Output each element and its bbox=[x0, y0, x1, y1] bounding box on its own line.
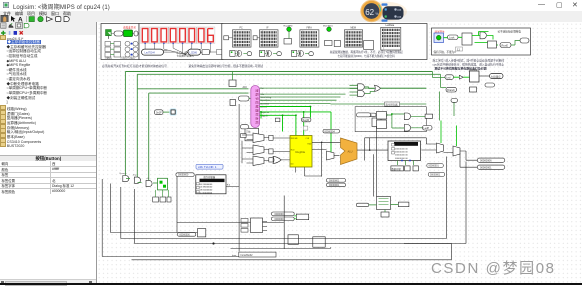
svg-text:0c 00000000: 0c 00000000 bbox=[199, 192, 212, 194]
attribute panel bbox=[0, 155, 97, 161]
svg-text:00000001: 00000001 bbox=[329, 185, 340, 187]
probe rects left of regfile bbox=[268, 135, 272, 162]
wires green column left bbox=[110, 43, 114, 54]
register grid IF bbox=[259, 27, 278, 46]
probe oval 00000004 top bbox=[360, 113, 376, 117]
xor gate cluster 2 bbox=[259, 50, 281, 56]
svg-text:七段锁存: 七段锁存 bbox=[490, 74, 501, 78]
clk oval bbox=[451, 98, 458, 102]
svg-text:ALUCtl: ALUCtl bbox=[260, 105, 267, 108]
mux column 3 bbox=[253, 156, 264, 166]
probe oval bbox=[114, 31, 123, 36]
splitter pennant bbox=[105, 29, 134, 38]
svg-text:KB: KB bbox=[397, 15, 401, 19]
imm label box wide bbox=[232, 252, 276, 257]
svg-text:必须先将开关打到0(红灯亮起)才能切换时钟启动信号: 必须先将开关打到0(红灯亮起)才能切换时钟启动信号 bbox=[102, 64, 167, 68]
probe before IF grid bbox=[253, 35, 259, 39]
svg-text:00000000: 00000000 bbox=[178, 174, 189, 176]
wire: green loop 3 bbox=[148, 93, 248, 180]
svg-text:指令寄存器: 指令寄存器 bbox=[385, 102, 398, 106]
svg-text:RdD: RdD bbox=[307, 143, 311, 145]
mux column 2 bbox=[253, 145, 264, 155]
data memory box bbox=[388, 141, 421, 161]
menu bar bbox=[0, 11, 582, 16]
probe box E bbox=[425, 114, 433, 118]
probe oval small bbox=[134, 31, 138, 36]
svg-text:08 00000000: 08 00000000 bbox=[199, 189, 213, 191]
svg-text:x4b: Tx1,NK: 1: x4b: Tx1,NK: 1 bbox=[198, 165, 217, 169]
ALU control cluster bbox=[241, 218, 267, 233]
mux right 2 bbox=[453, 146, 460, 156]
register grid MEM bbox=[344, 27, 362, 46]
probe oval LedPC bbox=[422, 125, 432, 130]
probe ovals 00000001 pair mid bbox=[326, 178, 345, 182]
buffer bbox=[459, 75, 463, 79]
svg-text:请按此开关: 请按此开关 bbox=[123, 25, 136, 29]
indicator columns right bbox=[125, 41, 138, 57]
svg-text:00000001: 00000001 bbox=[480, 165, 492, 169]
svg-text:RegW: RegW bbox=[302, 119, 309, 122]
svg-text:00 24000000: 00 24000000 bbox=[199, 183, 213, 185]
probe oval bbox=[447, 35, 458, 40]
component pin box bbox=[230, 99, 236, 105]
junction dots bbox=[260, 105, 311, 116]
wires mux outputs to regfile bbox=[264, 137, 290, 160]
RegWrite probe oval bbox=[301, 117, 311, 121]
register column left bbox=[105, 41, 121, 57]
svg-text:00000004: 00000004 bbox=[324, 131, 335, 133]
const 11 box bbox=[455, 47, 462, 51]
tunnel label bbox=[330, 102, 426, 106]
probe oval Led bbox=[445, 74, 454, 79]
wire: green loop 2 bbox=[137, 74, 440, 177]
and gate IRQ 2 bbox=[404, 124, 410, 131]
sequencer wires bbox=[242, 135, 253, 163]
svg-text:测试不可换挡预留互换电路状态灯及对调: 测试不可换挡预留互换电路状态灯及对调 bbox=[434, 65, 486, 70]
svg-text:KB: KB bbox=[397, 8, 401, 12]
long vertical wires left bbox=[102, 179, 134, 257]
svg-text:ALU: ALU bbox=[347, 149, 352, 153]
register box 2 bbox=[376, 120, 386, 129]
nand gate bbox=[480, 32, 486, 39]
module box C: pipeline state displays bbox=[221, 23, 426, 59]
svg-text:计数器: 计数器 bbox=[104, 55, 112, 59]
green verticals into muxes bbox=[441, 120, 457, 146]
svg-text:保持节拍，不能为0: 保持节拍，不能为0 bbox=[433, 50, 456, 54]
counter oval left bbox=[240, 124, 248, 128]
counter oval interrupt bbox=[356, 112, 370, 116]
LED Reg38Hz bbox=[283, 25, 292, 44]
wire: outer green loop top bbox=[125, 71, 432, 175]
selected pin (cyan halo) bbox=[169, 108, 177, 116]
svg-text:62: 62 bbox=[365, 8, 374, 17]
wires memory to mux bbox=[421, 144, 477, 167]
const boxes under splitter bbox=[152, 197, 170, 202]
long bottom wires bbox=[102, 126, 466, 259]
funct box bbox=[296, 214, 308, 220]
main toolbar bbox=[0, 16, 582, 22]
pin box left bbox=[240, 133, 246, 137]
yellow regfile bottom stubs bbox=[295, 167, 321, 176]
RegFile (yellow) bbox=[290, 135, 312, 167]
module box A: clock control panel bbox=[101, 23, 139, 59]
svg-text:Led: Led bbox=[446, 76, 451, 79]
probe oval 00000000 bbox=[175, 172, 193, 176]
svg-text:Imm: Imm bbox=[232, 254, 236, 256]
wire ALU out bbox=[357, 137, 426, 160]
Branch probe oval bbox=[446, 87, 457, 92]
gate buffers bottom-left 3 bbox=[146, 178, 152, 187]
svg-text:Rst: Rst bbox=[260, 87, 264, 90]
svg-text:LedData: LedData bbox=[385, 24, 394, 27]
svg-text:RegFile: RegFile bbox=[295, 150, 305, 154]
blue input square with LED bbox=[434, 33, 444, 43]
register grid FIRA bbox=[299, 26, 318, 46]
left pane mini toolbars bbox=[0, 22, 97, 37]
xor gate cluster 1 bbox=[229, 50, 251, 56]
label 七段数码管输入 bbox=[176, 53, 194, 57]
svg-text:0x1F: 0x1F bbox=[156, 110, 162, 114]
sequencer box bbox=[245, 128, 259, 141]
svg-text:04 38000000: 04 38000000 bbox=[199, 186, 213, 188]
probe oval 00000004 bbox=[323, 129, 340, 133]
svg-text:Din: Din bbox=[290, 163, 293, 165]
svg-text:11: 11 bbox=[457, 47, 460, 51]
wires gates mid top bbox=[349, 85, 426, 95]
mux right 1 bbox=[436, 143, 443, 153]
svg-text:MEM: MEM bbox=[350, 27, 355, 29]
register grid LedData bbox=[380, 24, 400, 50]
probe before PC grid bbox=[223, 35, 232, 39]
clock divider cluster bbox=[356, 196, 409, 217]
probe oval LedTCH4 bbox=[141, 49, 163, 55]
svg-text:00000001: 00000001 bbox=[430, 174, 441, 176]
module box D: debug switch panel bbox=[431, 28, 530, 55]
LED MemWrite bbox=[323, 24, 334, 45]
or gate small bbox=[273, 156, 281, 163]
probe oval 0x1F bbox=[154, 109, 163, 114]
blue pin dots bbox=[130, 42, 132, 55]
counter oval bbox=[238, 96, 251, 101]
svg-text:控制信号输出: 控制信号输出 bbox=[120, 55, 135, 59]
svg-text:clk: clk bbox=[146, 178, 150, 180]
wire: ctrl outputs bright green bus bbox=[259, 106, 330, 154]
sign extend box bbox=[372, 118, 381, 127]
svg-text:Jmp: Jmp bbox=[132, 174, 137, 176]
tunnel label blue bbox=[196, 164, 223, 169]
LedReg cluster: wire green bbox=[432, 71, 454, 120]
splitter green component bbox=[126, 178, 168, 190]
instruction memory bbox=[195, 174, 225, 194]
svg-text:PC: PC bbox=[239, 27, 243, 29]
svg-text:RegDst: RegDst bbox=[260, 114, 267, 117]
probe ovals below mux bbox=[426, 163, 443, 167]
svg-text:LCD86: LCD86 bbox=[189, 51, 197, 54]
small comp box bbox=[469, 87, 476, 92]
latch output oval bbox=[489, 73, 503, 78]
memory pins below bbox=[397, 160, 413, 165]
svg-text:RunE: RunE bbox=[501, 43, 508, 47]
box bottom 2 bbox=[312, 236, 324, 246]
svg-text:00000006: 00000006 bbox=[480, 158, 492, 162]
and gates mid top bbox=[357, 83, 380, 96]
LedReg register bbox=[469, 69, 479, 82]
junction bbox=[320, 141, 322, 143]
wire to selected pin bbox=[163, 111, 171, 113]
probe oval bbox=[500, 42, 511, 47]
stepped display box bbox=[363, 40, 373, 49]
probe rect small bbox=[275, 118, 280, 122]
svg-text:七段不能提前为0000，七段不能为随机打7/组合码: 七段不能提前为0000，七段不能为随机打7/组合码 bbox=[337, 53, 395, 57]
probe rect pair bbox=[202, 49, 210, 54]
svg-text:RW WE: RW WE bbox=[290, 138, 297, 140]
svg-text:LedP: LedP bbox=[423, 127, 429, 130]
svg-text:先装载测试数据，再循环执行1条，不行，必须让7段数码管跑起: 先装载测试数据，再循环执行1条，不行，必须让7段数码管跑起 bbox=[329, 49, 402, 53]
wire regfile out bbox=[312, 142, 343, 176]
wire fan from displays bbox=[145, 44, 210, 55]
svg-text:00000001: 00000001 bbox=[428, 165, 439, 167]
schematic canvas bbox=[97, 22, 582, 284]
svg-text:A16: A16 bbox=[242, 86, 247, 89]
svg-text:RegWrite: RegWrite bbox=[260, 110, 269, 113]
result ovals right bbox=[477, 158, 505, 162]
svg-text:00000000 00: 00000000 00 bbox=[395, 148, 409, 150]
mux column 1 bbox=[253, 133, 264, 143]
wire: ctrl outputs green bbox=[259, 88, 426, 103]
svg-text:Branch: Branch bbox=[447, 89, 455, 92]
wires bright green bbox=[443, 31, 498, 45]
button (green) bbox=[123, 30, 132, 37]
register box interrupt bbox=[376, 111, 386, 119]
gate buffers bottom-left 1 bbox=[119, 172, 128, 182]
svg-text:微程序控制器状态机: 微程序控制器状态机 bbox=[255, 89, 260, 125]
svg-text:00000001: 00000001 bbox=[329, 180, 340, 182]
control unit output labels bbox=[260, 87, 271, 117]
ALU (orange) bbox=[340, 138, 357, 165]
const box E bbox=[303, 126, 308, 130]
probe oval small bbox=[378, 113, 387, 117]
wires IRQ bbox=[386, 114, 425, 128]
wire vertical from imem oval bbox=[177, 176, 284, 232]
module box B: seven segment display bank bbox=[139, 23, 223, 59]
flipflop small bbox=[487, 41, 496, 48]
gate buffers bottom-left 2 bbox=[132, 174, 140, 183]
register box bbox=[462, 33, 472, 45]
seven-seg digits 00000006 bbox=[140, 27, 149, 44]
mux before ALU bbox=[326, 151, 334, 160]
svg-text:00000000: 00000000 bbox=[179, 234, 190, 236]
svg-text:00000001: 00000001 bbox=[274, 213, 285, 215]
MemR small box bbox=[334, 40, 340, 46]
svg-text:Stlu: Stlu bbox=[260, 93, 264, 96]
svg-text:RsD: RsD bbox=[290, 149, 294, 151]
memory label boxes bbox=[390, 165, 418, 170]
svg-text:00000001: 00000001 bbox=[274, 218, 285, 220]
overlay performance badge bbox=[348, 0, 412, 23]
register grid PC bbox=[232, 27, 251, 46]
wire imem out bbox=[226, 104, 239, 252]
svg-text:Branch: Branch bbox=[119, 172, 127, 175]
svg-text:00000000 00: 00000000 00 bbox=[395, 151, 409, 153]
and box bottom bbox=[288, 234, 298, 244]
wire bright bbox=[453, 76, 469, 78]
probe oval 00000000 bottom bbox=[177, 232, 195, 236]
and gate IRQ 1 bbox=[404, 113, 410, 120]
CSDN watermark bbox=[431, 257, 556, 278]
wire loop2 right drop bbox=[440, 74, 446, 87]
svg-text:可不连接但必须断电: 可不连接但必须断电 bbox=[497, 29, 521, 33]
svg-text:Imm26to32: Imm26to32 bbox=[240, 253, 253, 256]
svg-text:Lock: Lock bbox=[449, 35, 455, 39]
probe ovals 00000001 pair bbox=[271, 212, 294, 216]
wire to latch oval bbox=[479, 75, 490, 77]
svg-text:00000000 00: 00000000 00 bbox=[395, 154, 409, 156]
component 清零 box bbox=[229, 71, 236, 86]
probe oval small bbox=[485, 83, 495, 87]
svg-text:避免影响输出注意即时钟信号分频，很多不要随意唤--可测试: 避免影响输出注意即时钟信号分频，很多不要随意唤--可测试 bbox=[188, 64, 263, 68]
window title bar bbox=[0, 0, 582, 11]
xor gate cluster 3 bbox=[291, 50, 313, 56]
control unit (pink) bbox=[250, 85, 259, 127]
probe oval LCD864 bbox=[188, 49, 201, 55]
explorer tree bbox=[0, 35, 97, 155]
output oval bbox=[520, 38, 529, 43]
interrupt area outline bbox=[355, 106, 426, 131]
svg-text:FIRA: FIRA bbox=[306, 26, 312, 29]
pc select box bbox=[197, 228, 205, 236]
wires under splitter bbox=[155, 189, 168, 196]
svg-text:LedTCH4: LedTCH4 bbox=[144, 51, 155, 54]
